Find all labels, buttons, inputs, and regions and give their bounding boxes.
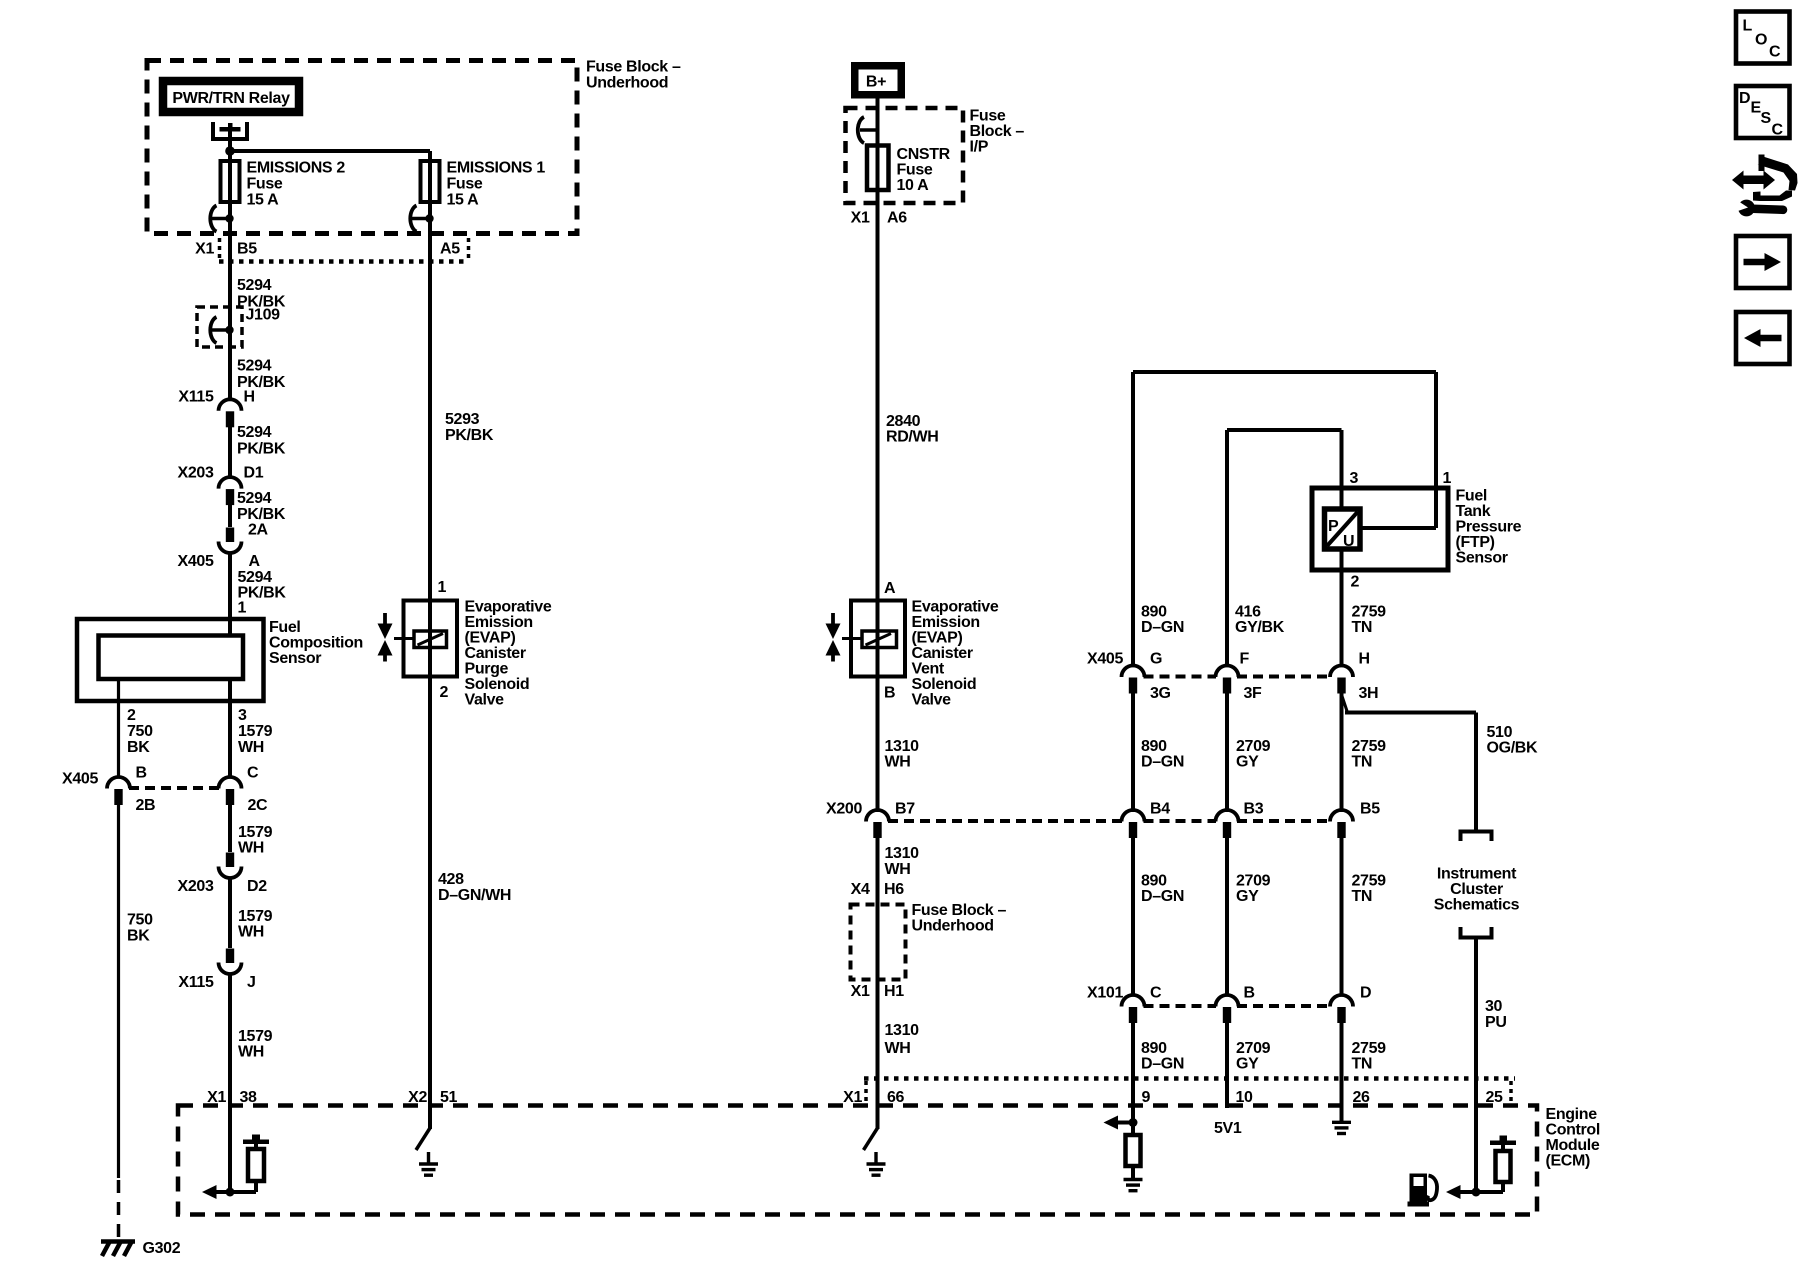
wire 890 D-GN segment 4 — [1131, 1023, 1135, 1107]
svg-text:890: 890 — [1141, 873, 1167, 890]
svg-text:WH: WH — [885, 1040, 911, 1057]
instrument cluster schematics link bottom bracket — [1461, 927, 1492, 938]
svg-text:C: C — [247, 765, 259, 782]
svg-text:A6: A6 — [887, 210, 907, 227]
svg-text:PK/BK: PK/BK — [237, 441, 286, 458]
svg-text:5294: 5294 — [237, 277, 272, 294]
svg-text:G: G — [1150, 651, 1162, 668]
svg-text:3H: 3H — [1359, 685, 1379, 702]
svg-text:1579: 1579 — [238, 908, 273, 925]
svg-text:Underhood: Underhood — [586, 75, 668, 92]
svg-text:D: D — [1739, 90, 1750, 107]
wire FTP pin1 top link — [1133, 370, 1436, 374]
connector X115 pin J — [219, 949, 242, 975]
svg-text:EMISSIONS 1: EMISSIONS 1 — [447, 160, 546, 177]
svg-text:5294: 5294 — [237, 424, 272, 441]
svg-text:D1: D1 — [244, 465, 264, 482]
wire 1310 WH — [876, 677, 880, 813]
ECM pin 25 interior: arrow resistor and fuel pump — [1474, 1106, 1478, 1192]
svg-text:B+: B+ — [866, 74, 886, 91]
instrument cluster schematics link top bracket — [1461, 832, 1492, 842]
svg-text:C: C — [1772, 122, 1784, 139]
vent valve symbol — [831, 613, 835, 625]
svg-text:Fuse Block –: Fuse Block – — [586, 59, 681, 76]
svg-text:750: 750 — [127, 912, 153, 929]
fuse block underhood dashed box — [147, 61, 577, 234]
svg-text:P: P — [1328, 518, 1339, 535]
terminal hook at CNSTR fuse — [860, 128, 878, 132]
svg-text:X4: X4 — [851, 881, 870, 898]
wire 2709 GY segment 3 — [1225, 838, 1229, 997]
wire 890 D-GN segment 3 — [1131, 838, 1135, 997]
wire 2759 TN segment 3 — [1340, 838, 1344, 997]
relay PWR/TRN box — [163, 81, 299, 112]
svg-text:1579: 1579 — [238, 723, 273, 740]
svg-text:Valve: Valve — [465, 692, 505, 709]
wire 2709 GY segment 4 — [1225, 1023, 1229, 1109]
wire 1310 WH below X200 — [876, 838, 880, 1107]
ECM pin 9 interior: arrow resistor ground — [1131, 1106, 1135, 1135]
svg-text:RD/WH: RD/WH — [886, 429, 938, 446]
wire sensor pin 3 1579 WH — [228, 679, 232, 778]
svg-text:S: S — [1761, 110, 1772, 127]
svg-text:Evaporative: Evaporative — [465, 599, 552, 616]
svg-text:D–GN: D–GN — [1141, 619, 1184, 636]
splice J109 dashed box — [197, 307, 242, 347]
svg-text:Fuel: Fuel — [269, 619, 301, 636]
svg-text:B7: B7 — [895, 801, 915, 818]
icon LOC box — [1736, 12, 1790, 64]
icon back arrow box — [1736, 312, 1790, 364]
svg-text:Fuse: Fuse — [247, 176, 283, 193]
svg-text:WH: WH — [238, 840, 264, 857]
svg-text:Underhood: Underhood — [912, 918, 994, 935]
wire relay output — [228, 131, 232, 400]
svg-text:750: 750 — [127, 723, 153, 740]
ECM dotted connector row — [864, 1076, 1515, 1081]
svg-text:Sensor: Sensor — [269, 650, 321, 667]
svg-text:CNSTR: CNSTR — [897, 146, 951, 163]
svg-text:Solenoid: Solenoid — [465, 676, 530, 693]
svg-text:Canister: Canister — [912, 645, 973, 662]
fuse CNSTR 10A — [867, 146, 889, 191]
svg-text:510: 510 — [1487, 724, 1513, 741]
svg-text:(ECM): (ECM) — [1546, 1153, 1590, 1170]
svg-text:B: B — [884, 685, 895, 702]
purge valve symbol — [383, 613, 387, 625]
wire 890 D-GN segment 2 — [1131, 693, 1135, 813]
svg-text:PWR/TRN Relay: PWR/TRN Relay — [172, 90, 290, 107]
svg-text:1579: 1579 — [238, 824, 273, 841]
wire 750 BK to ground — [117, 805, 120, 1179]
icon next arrow box — [1736, 236, 1790, 288]
svg-text:2759: 2759 — [1352, 1040, 1387, 1057]
svg-text:2: 2 — [440, 684, 449, 701]
wire FTP pin2 2759 TN — [1340, 549, 1344, 667]
svg-text:15 A: 15 A — [247, 192, 280, 209]
svg-text:10 A: 10 A — [897, 177, 930, 194]
svg-text:(FTP): (FTP) — [1456, 534, 1495, 551]
svg-text:1310: 1310 — [885, 738, 920, 755]
ECM pin 66 interior: switch to ground — [876, 1106, 880, 1129]
svg-text:3: 3 — [1350, 470, 1359, 487]
svg-text:WH: WH — [885, 754, 911, 771]
svg-text:Cluster: Cluster — [1450, 881, 1503, 898]
svg-text:1310: 1310 — [885, 1022, 920, 1039]
svg-text:X405: X405 — [62, 771, 98, 788]
svg-text:WH: WH — [238, 1044, 264, 1061]
svg-text:BK: BK — [127, 739, 150, 756]
svg-text:1: 1 — [438, 579, 447, 596]
svg-text:Purge: Purge — [465, 661, 509, 678]
svg-text:TN: TN — [1352, 619, 1373, 636]
svg-text:J: J — [247, 974, 256, 991]
svg-text:Fuel: Fuel — [1456, 488, 1488, 505]
svg-text:BK: BK — [127, 928, 150, 945]
svg-text:1579: 1579 — [238, 1028, 273, 1045]
svg-text:A: A — [884, 580, 896, 597]
fuse EMISSIONS 1 — [421, 161, 440, 202]
svg-text:X200: X200 — [826, 801, 862, 818]
ECM pin 51 interior: switch to ground — [428, 1106, 432, 1129]
svg-text:X1: X1 — [851, 210, 870, 227]
svg-text:Control: Control — [1546, 1122, 1600, 1139]
svg-text:5294: 5294 — [238, 569, 273, 586]
svg-text:416: 416 — [1235, 604, 1261, 621]
svg-text:H: H — [244, 389, 255, 406]
svg-text:F: F — [1240, 651, 1250, 668]
svg-text:Vent: Vent — [912, 661, 945, 678]
svg-text:X203: X203 — [178, 878, 214, 895]
wire branch to EMISSIONS 1 — [230, 149, 430, 153]
splice J109 hook — [210, 317, 233, 343]
svg-text:H1: H1 — [884, 983, 904, 1000]
svg-text:PU: PU — [1485, 1014, 1507, 1031]
svg-text:GY: GY — [1236, 888, 1259, 905]
svg-text:H6: H6 — [884, 881, 904, 898]
svg-text:Block –: Block – — [970, 123, 1025, 140]
svg-text:GY: GY — [1236, 754, 1259, 771]
svg-text:5294: 5294 — [237, 358, 272, 375]
terminal hook below EMISSIONS 2 fuse — [210, 206, 233, 232]
svg-text:WH: WH — [238, 924, 264, 941]
svg-text:WH: WH — [238, 739, 264, 756]
wire 428 D-GN/WH — [428, 677, 432, 1107]
svg-text:15 A: 15 A — [447, 192, 480, 209]
svg-text:TN: TN — [1352, 754, 1373, 771]
svg-text:GY/BK: GY/BK — [1235, 619, 1285, 636]
engine control module ECM dashed box — [178, 1106, 1537, 1215]
svg-text:C: C — [1150, 985, 1162, 1002]
wire 30 PU — [1474, 938, 1478, 1107]
svg-text:OG/BK: OG/BK — [1487, 740, 1538, 757]
svg-text:X115: X115 — [178, 389, 214, 406]
svg-text:1: 1 — [238, 600, 247, 617]
svg-text:B5: B5 — [1360, 801, 1380, 818]
svg-text:Module: Module — [1546, 1137, 1600, 1154]
svg-text:B: B — [1244, 985, 1255, 1002]
svg-text:30: 30 — [1485, 998, 1503, 1015]
svg-text:U: U — [1343, 533, 1354, 550]
svg-text:Canister: Canister — [465, 645, 526, 662]
svg-text:2759: 2759 — [1352, 738, 1387, 755]
svg-text:X1: X1 — [851, 983, 870, 1000]
svg-text:D2: D2 — [247, 878, 267, 895]
svg-text:Schematics: Schematics — [1434, 897, 1520, 914]
svg-text:Engine: Engine — [1546, 1106, 1598, 1123]
svg-text:B5: B5 — [237, 241, 257, 258]
terminal hook below EMISSIONS 1 fuse — [410, 206, 433, 232]
wire 2709 GY segment 2 — [1225, 693, 1229, 813]
ground G302 — [101, 1239, 135, 1244]
svg-text:Fuse: Fuse — [897, 162, 933, 179]
svg-text:1: 1 — [1443, 470, 1452, 487]
svg-text:428: 428 — [438, 871, 464, 888]
svg-text:Emission: Emission — [465, 614, 533, 631]
svg-text:5293: 5293 — [445, 411, 480, 428]
svg-text:I/P: I/P — [970, 139, 989, 156]
svg-text:Solenoid: Solenoid — [912, 676, 977, 693]
wire 2759 TN segment 4 — [1340, 1023, 1344, 1107]
ECM pin 38 interior: wire arrow and resistor to ground — [228, 1106, 232, 1192]
svg-text:X405: X405 — [178, 553, 214, 570]
svg-text:A: A — [249, 553, 261, 570]
svg-text:2A: 2A — [248, 522, 269, 539]
svg-text:G302: G302 — [143, 1240, 181, 1257]
icon schematic navigation arrows and wrench — [1741, 176, 1766, 185]
svg-text:2709: 2709 — [1236, 738, 1271, 755]
fuse block underhood small dashed box — [851, 905, 906, 980]
fuse block I/P dashed box — [846, 108, 964, 203]
svg-text:2709: 2709 — [1236, 1040, 1271, 1057]
svg-text:2B: 2B — [136, 797, 156, 814]
wire 1579 WH pin C down — [228, 805, 232, 853]
connector X203 pin D2 — [219, 853, 242, 879]
svg-text:Evaporative: Evaporative — [912, 599, 999, 616]
svg-text:Pressure: Pressure — [1456, 519, 1522, 536]
svg-text:3: 3 — [238, 707, 247, 724]
svg-text:D: D — [1360, 985, 1371, 1002]
svg-text:Sensor: Sensor — [1456, 550, 1508, 567]
svg-text:(EVAP): (EVAP) — [912, 630, 963, 647]
svg-text:1310: 1310 — [885, 845, 920, 862]
svg-text:Valve: Valve — [912, 692, 952, 709]
svg-text:5V1: 5V1 — [1214, 1120, 1242, 1137]
svg-text:A5: A5 — [440, 241, 460, 258]
svg-text:2: 2 — [127, 707, 136, 724]
svg-text:2759: 2759 — [1352, 873, 1387, 890]
svg-text:O: O — [1755, 32, 1767, 49]
connector X200 dashed link — [888, 819, 1123, 823]
svg-text:2759: 2759 — [1352, 604, 1387, 621]
node relay output junction — [225, 146, 235, 156]
wire B+ down — [876, 98, 880, 601]
svg-text:890: 890 — [1141, 1040, 1167, 1057]
svg-text:2C: 2C — [248, 797, 269, 814]
svg-text:X1: X1 — [195, 241, 214, 258]
svg-text:890: 890 — [1141, 738, 1167, 755]
wire sensor pin 2 750 BK — [117, 679, 120, 778]
svg-text:Tank: Tank — [1456, 503, 1491, 520]
relay contact symbol — [213, 122, 247, 139]
svg-text:WH: WH — [885, 861, 911, 878]
svg-text:TN: TN — [1352, 888, 1373, 905]
svg-text:(EVAP): (EVAP) — [465, 630, 516, 647]
svg-text:Fuse: Fuse — [970, 108, 1006, 125]
fuel pump icon — [1410, 1174, 1428, 1204]
svg-text:2: 2 — [1351, 574, 1360, 591]
svg-text:C: C — [1769, 44, 1781, 61]
svg-text:GY: GY — [1236, 1056, 1259, 1073]
svg-text:D–GN/WH: D–GN/WH — [438, 887, 511, 904]
svg-text:B3: B3 — [1244, 801, 1264, 818]
svg-text:X203: X203 — [178, 465, 214, 482]
svg-text:EMISSIONS 2: EMISSIONS 2 — [247, 160, 346, 177]
svg-text:D–GN: D–GN — [1141, 1056, 1184, 1073]
svg-text:B: B — [136, 765, 147, 782]
connector X405 pin C — [219, 777, 242, 805]
svg-text:2709: 2709 — [1236, 873, 1271, 890]
fuse EMISSIONS 2 — [221, 161, 240, 202]
svg-text:TN: TN — [1352, 1056, 1373, 1073]
wire 3H branch to 510 OG/BK — [1342, 696, 1348, 713]
svg-text:L: L — [1743, 18, 1753, 35]
svg-text:Emission: Emission — [912, 614, 980, 631]
svg-text:Fuse Block –: Fuse Block – — [912, 902, 1007, 919]
svg-text:5294: 5294 — [237, 490, 272, 507]
ECM pin 26 interior: ground — [1340, 1106, 1344, 1122]
svg-text:D–GN: D–GN — [1141, 888, 1184, 905]
svg-text:X101: X101 — [1087, 985, 1123, 1002]
connector X405 pin A — [219, 528, 242, 554]
svg-text:PK/BK: PK/BK — [237, 506, 286, 523]
svg-text:H: H — [1359, 651, 1370, 668]
icon DESC box — [1736, 86, 1790, 138]
svg-text:X115: X115 — [178, 974, 214, 991]
svg-text:PK/BK: PK/BK — [445, 427, 494, 444]
wire FTP pin3 link — [1227, 428, 1342, 432]
svg-text:Composition: Composition — [269, 635, 363, 652]
svg-text:3F: 3F — [1244, 685, 1263, 702]
wire 2759 TN segment 2 — [1340, 693, 1344, 813]
svg-text:2840: 2840 — [886, 413, 921, 430]
connector X405 dashed link — [129, 786, 219, 790]
svg-text:X405: X405 — [1087, 651, 1123, 668]
svg-text:890: 890 — [1141, 604, 1167, 621]
svg-text:D–GN: D–GN — [1141, 754, 1184, 771]
svg-text:Fuse: Fuse — [447, 176, 483, 193]
connector X200 row B4 B3 B5 — [1122, 810, 1145, 838]
svg-text:3G: 3G — [1150, 685, 1171, 702]
wire 890 D-GN top — [1131, 372, 1135, 667]
svg-text:J109: J109 — [246, 307, 281, 324]
svg-text:B4: B4 — [1150, 801, 1170, 818]
svg-text:Instrument: Instrument — [1437, 866, 1517, 883]
fuel composition sensor — [77, 619, 264, 701]
battery B+ box — [855, 66, 902, 95]
